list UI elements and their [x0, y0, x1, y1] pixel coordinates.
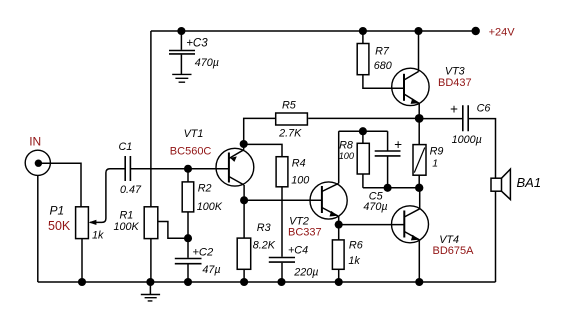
terminal +24V [472, 27, 480, 35]
connector IN jack [25, 150, 50, 175]
svg-text:IN: IN [29, 134, 41, 148]
resistor R5 [276, 113, 308, 125]
capacitor C3 [169, 51, 195, 54]
capacitor C4 [269, 258, 295, 263]
wire top +24V rail [151, 30, 476, 32]
node R9 bottom / VT4 collector [415, 184, 423, 192]
wire P1 wiper to C1 [90, 169, 125, 223]
wire C6 left [419, 118, 462, 120]
wire R4 bottom through base line to C4 [281, 187, 283, 257]
svg-text:100: 100 [339, 151, 355, 161]
svg-text:1000µ: 1000µ [452, 134, 482, 146]
wire left vertical from rail to R1 [150, 31, 152, 207]
wire R8 stub bottom [362, 174, 364, 188]
svg-text:1: 1 [432, 158, 438, 170]
wire top node line (VT2 collector, R8, C5) [339, 130, 388, 132]
svg-text:BC560C: BC560C [170, 145, 212, 157]
node bottom rail R6 [335, 278, 343, 286]
wire R3 bottom [243, 269, 245, 282]
wire C3 to ground [180, 55, 182, 75]
node bottom rail C2 [184, 278, 192, 286]
ground (main) [149, 282, 151, 295]
wire C3 stub [180, 31, 182, 50]
resistor R9 (with diagonal) [413, 145, 426, 176]
ground (C3) [172, 74, 191, 82]
wire R1 tap to node [158, 222, 188, 239]
wire VT4 emitter down [418, 240, 420, 282]
node VT3 collector on rail [414, 27, 422, 35]
svg-text:R3: R3 [257, 222, 271, 234]
speaker BA1 [491, 178, 502, 191]
node junction C3 top [177, 27, 185, 35]
svg-text:P1: P1 [50, 203, 65, 217]
node VT1 collector [240, 196, 248, 204]
svg-text:C1: C1 [119, 141, 133, 153]
svg-text:1k: 1k [348, 255, 360, 267]
wire C2 bottom [187, 264, 189, 282]
transistor VT3 BD437 [392, 68, 429, 105]
node bottom rail VT4 emitter [415, 278, 423, 286]
wire R8 stub top [362, 131, 364, 143]
wire speaker bottom [495, 191, 497, 282]
transistor VT2 BC337 [310, 182, 347, 219]
svg-text:+24V: +24V [489, 27, 516, 39]
node bottom rail R1/ground [146, 278, 154, 286]
resistor R6 [332, 240, 344, 269]
svg-text:2.7K: 2.7K [278, 127, 302, 139]
resistor R3 [237, 238, 251, 269]
svg-text:+: + [450, 102, 458, 117]
svg-text:50K: 50K [48, 219, 71, 233]
node bottom rail C4 [277, 278, 285, 286]
svg-text:R6: R6 [349, 239, 363, 251]
svg-text:C6: C6 [477, 103, 491, 115]
wire bottom ground rail [38, 281, 496, 283]
wire VT3 emitter down [418, 103, 420, 118]
node VT2 emitter [335, 221, 343, 229]
wire R7 stub top [362, 31, 364, 44]
resistor R2 [182, 182, 194, 212]
node base of VT1 / R2 top [184, 165, 192, 173]
svg-text:BD437: BD437 [438, 77, 472, 89]
wire VT2 emitter to VT4 base [339, 224, 405, 226]
svg-text:R5: R5 [282, 100, 297, 112]
wire R7 bottom to VT3 base [363, 75, 404, 89]
node bottom rail P1 [78, 278, 86, 286]
wire C5 bottom [387, 156, 389, 187]
node VT3 emitter / R5 / R9 / C6 [415, 114, 424, 123]
svg-text:+C3: +C3 [186, 37, 208, 49]
svg-text:+C4: +C4 [288, 245, 308, 257]
wire R9 stub bottom [418, 175, 420, 188]
wire VT3 collector up [418, 31, 420, 72]
arrow P1 wiper [89, 220, 97, 225]
arrow VT1 emitter (PNP, points to base) [230, 156, 237, 162]
wire C5 drop [387, 131, 389, 151]
transistor VT4 BD675A [392, 206, 429, 243]
wire VT2 collector up [338, 131, 340, 183]
resistor R1 [144, 207, 158, 239]
wire R5 right to VT3 emitter node [308, 117, 419, 119]
wire R2 bottom to node [187, 212, 189, 258]
node R8 top [359, 127, 367, 135]
wire VT1 collector to VT2 base [244, 199, 322, 201]
capacitor C1 [125, 156, 130, 181]
node C5 bottom [384, 184, 392, 192]
potentiometer P1 [76, 207, 89, 239]
arrow VT4 emitter [411, 235, 419, 241]
svg-text:1k: 1k [92, 230, 104, 242]
svg-text:100K: 100K [197, 201, 223, 213]
wire emitter node right to R4 [244, 144, 282, 156]
wire R9 stub top [418, 118, 420, 144]
svg-text:R8: R8 [339, 140, 353, 152]
wire emitter node up to R5 [244, 118, 275, 144]
svg-text:VT1: VT1 [184, 128, 204, 140]
svg-text:0.47: 0.47 [120, 184, 142, 196]
svg-text:470µ: 470µ [195, 57, 219, 69]
svg-text:100K: 100K [114, 221, 140, 233]
wire jack ground down [37, 175, 39, 282]
svg-text:470µ: 470µ [363, 201, 387, 213]
svg-text:BA1: BA1 [517, 175, 542, 190]
svg-text:BC337: BC337 [288, 227, 322, 239]
svg-text:R1: R1 [120, 209, 134, 221]
svg-text:680: 680 [374, 60, 392, 72]
resistor R7 [357, 44, 369, 75]
wire R3 stub [243, 200, 245, 238]
wire C6 right to speaker [469, 119, 496, 179]
wire R6 bottom [338, 269, 340, 282]
svg-text:VT3: VT3 [445, 66, 465, 78]
capacitor C6 [463, 105, 468, 131]
wire VT4 collector up to node [419, 188, 421, 209]
svg-text:47µ: 47µ [202, 264, 220, 276]
wire VT2 emitter down to node [338, 216, 340, 225]
wire bottom node line [363, 187, 419, 189]
svg-text:100: 100 [291, 175, 309, 187]
wire C4 bottom [281, 263, 283, 282]
svg-text:+C2: +C2 [192, 246, 214, 258]
node bottom rail R3 [240, 278, 248, 286]
resistor R4 [276, 157, 288, 187]
node R7 top on rail [359, 27, 367, 35]
wire jack to P1 top [42, 163, 81, 207]
svg-text:R9: R9 [430, 146, 444, 158]
svg-text:BD675A: BD675A [433, 245, 475, 257]
capacitor C5 [375, 151, 401, 156]
wire P1 bottom [81, 239, 83, 282]
resistor R8 [357, 143, 369, 174]
arrow VT2 emitter [330, 211, 338, 217]
wire R1 bottom to ground rail [150, 239, 152, 282]
arrow VT3 emitter [411, 98, 419, 104]
node VT1 emitter [240, 140, 248, 148]
svg-text:8.2K: 8.2K [253, 240, 276, 252]
svg-text:220µ: 220µ [293, 266, 318, 278]
svg-text:R4: R4 [292, 158, 306, 170]
capacitor C2 [175, 259, 202, 264]
wire R2 stub top [187, 169, 189, 182]
wire C1 to VT1 base [130, 168, 229, 170]
svg-text:+: + [394, 137, 402, 152]
node R2/C2/R1-tap [184, 234, 192, 242]
svg-text:R2: R2 [198, 183, 212, 195]
svg-text:R7: R7 [375, 45, 390, 57]
wire VT1 collector down [243, 185, 245, 200]
wire R6 stub [338, 225, 340, 240]
transistor VT1 BC560C [216, 148, 254, 186]
wire VT1 emitter up [243, 144, 245, 150]
